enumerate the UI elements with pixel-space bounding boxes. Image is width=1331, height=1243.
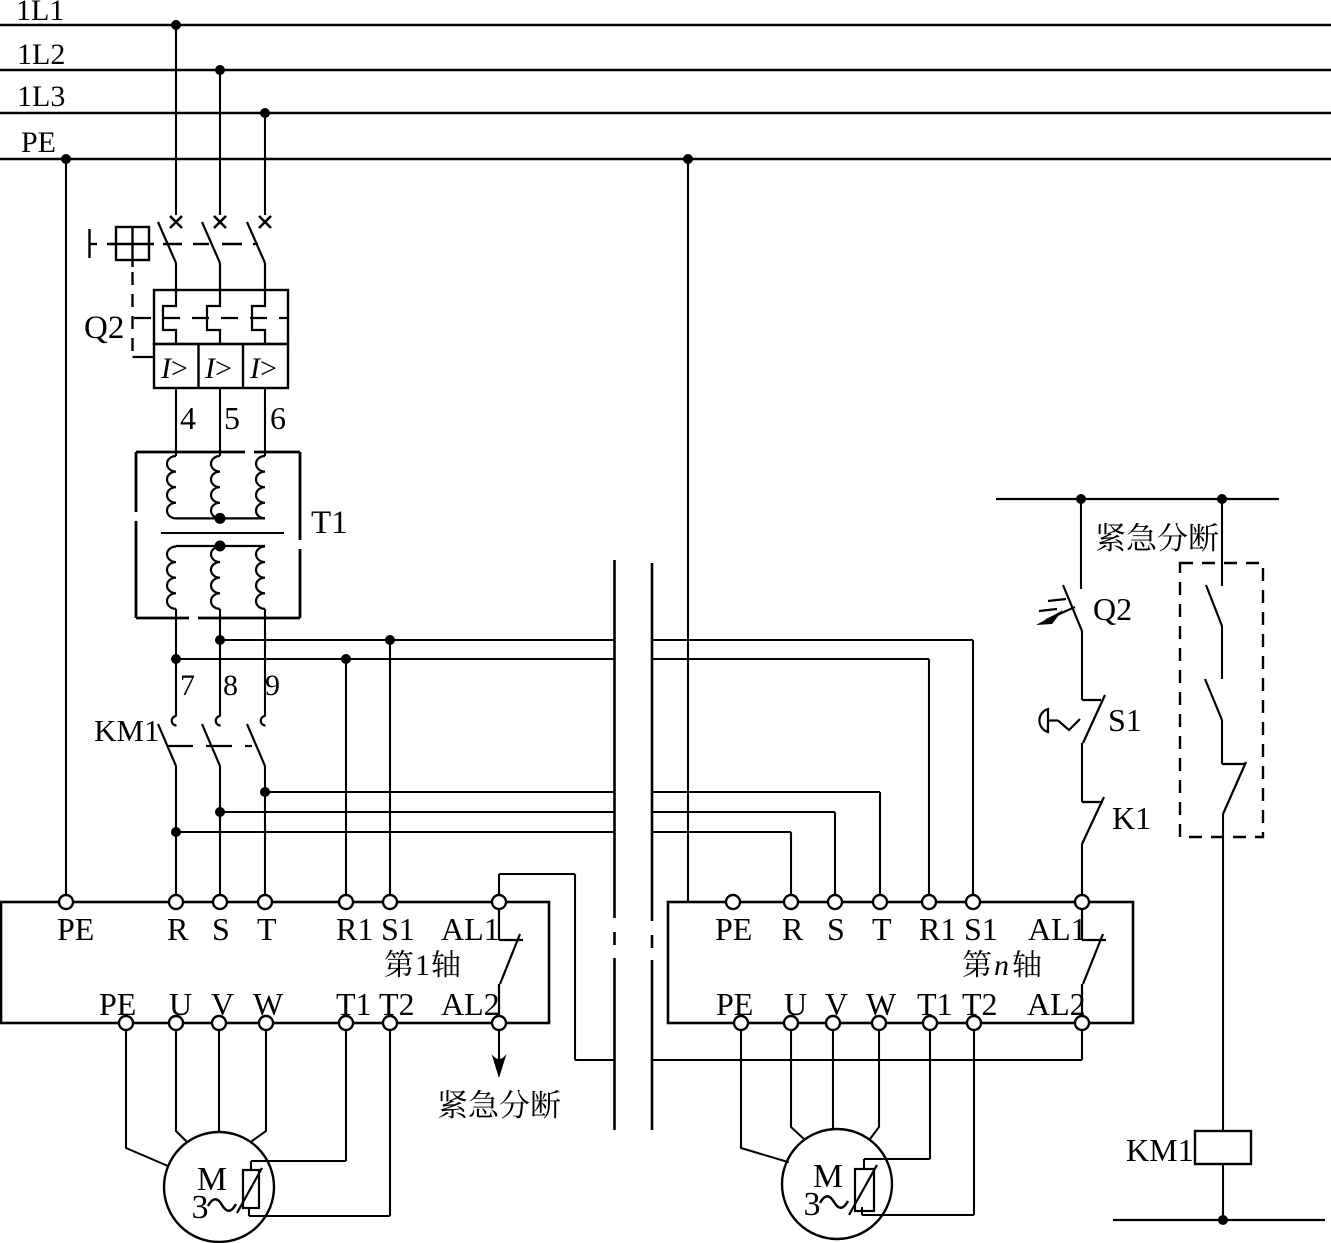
wire R-phase feed (left segment) — [176, 831, 615, 833]
drive n bottom terminal PE — [734, 1016, 748, 1030]
wire drive 1 V to motor 1 — [218, 1030, 220, 1133]
svg-text:V: V — [825, 986, 848, 1022]
svg-text:T1: T1 — [917, 986, 953, 1022]
wire pole2 down to KM1 — [219, 640, 221, 716]
wire drive n V to motor n — [832, 1030, 834, 1130]
wire KM1 coil to bottom bus — [1222, 1164, 1224, 1220]
svg-text:W: W — [866, 986, 897, 1022]
drive n terminal R1 — [922, 895, 936, 909]
node tap S-phase — [215, 635, 225, 645]
transformer T1 secondary winding 3 — [256, 547, 265, 609]
wire drive n PE to motor n — [740, 1030, 742, 1149]
drive n terminal AL1 — [1075, 895, 1089, 909]
arrowhead emergency chain — [492, 1054, 507, 1078]
svg-text:7: 7 — [180, 669, 195, 702]
emergency stop button S1 (NC) — [1082, 699, 1101, 701]
thermistor motor n — [855, 1169, 874, 1211]
node tap 1L1 — [171, 20, 181, 30]
wire R-phase feed (right segment) to drive n R — [652, 831, 791, 833]
breaker Q2 thermal elements box — [154, 290, 288, 344]
wire bus to Q2 aux — [1080, 499, 1082, 589]
svg-text:S1: S1 — [1108, 702, 1142, 738]
svg-text:1L2: 1L2 — [17, 38, 65, 71]
thermal overload element pole 1 — [163, 263, 176, 344]
node tap 1L3 — [260, 108, 270, 118]
svg-text:5: 5 — [224, 400, 240, 436]
drive 1 bottom terminal T2 — [383, 1016, 397, 1030]
transformer T1 primary star connection — [176, 517, 265, 519]
breaker Q2 pole 3 x-mark — [259, 216, 271, 228]
wire secondary 2 down — [219, 609, 221, 640]
drive 1 terminal T — [258, 895, 272, 909]
relay contact K1 (NC) — [1082, 801, 1103, 803]
drive 1 bottom terminal W — [259, 1016, 273, 1030]
wire S-phase feed (right segment) to drive n S — [652, 811, 835, 813]
drive n bottom terminal U — [784, 1016, 798, 1030]
node bottom bus — [1218, 1215, 1228, 1225]
thermistor motor 1 — [243, 1170, 259, 1208]
wire S-phase feed (left segment) — [220, 811, 615, 813]
motor Mn circle — [782, 1129, 892, 1239]
wire 1L1 to Q2 pole 1 — [175, 25, 177, 215]
svg-text:W: W — [253, 986, 284, 1022]
drive 1 terminal AL1 — [492, 895, 506, 909]
wire branch down to S1 drive 1 — [389, 640, 391, 896]
drive unit axis-n box — [668, 902, 1133, 1023]
svg-text:R1: R1 — [919, 911, 956, 947]
bus 1L1 — [0, 24, 1331, 26]
svg-text:9: 9 — [265, 669, 280, 702]
wire contact B to C — [1221, 720, 1223, 764]
node tap R-phase — [171, 654, 181, 664]
svg-text:KM1: KM1 — [1126, 1132, 1194, 1168]
breaker Q2 overcurrent I> row — [154, 344, 288, 388]
bottom control bus — [1113, 1219, 1325, 1221]
svg-text:K1: K1 — [1112, 800, 1151, 836]
node S-phase feed — [215, 807, 225, 817]
contact C (axis chain, NC) — [1222, 763, 1245, 765]
node branch S1 drive 1 — [385, 635, 395, 645]
breaker Q2 pole 1 x-mark — [170, 216, 182, 228]
transformer T1 primary winding 1 — [167, 456, 176, 518]
svg-text:S1: S1 — [381, 911, 415, 947]
breaker Q2 trip linkage dashes — [163, 243, 182, 245]
transformer T1 core line — [161, 532, 284, 534]
svg-text:PE: PE — [716, 986, 753, 1022]
svg-text:S1: S1 — [964, 911, 998, 947]
breaker Q2 pole 2 blade — [202, 222, 220, 263]
node emergency bus left — [1076, 494, 1086, 504]
contactor coil KM1 — [1195, 1131, 1251, 1164]
svg-text:Q2: Q2 — [84, 310, 124, 346]
wire K1 to drive n AL1 — [1081, 844, 1083, 896]
KM1 linkage dashed line — [168, 745, 193, 747]
breaker Q2 operator linkage dashed vertical — [131, 260, 133, 267]
bus 1L2 — [0, 69, 1331, 71]
drive n bottom terminal V — [826, 1016, 840, 1030]
svg-text:PE: PE — [715, 911, 752, 947]
svg-text:6: 6 — [270, 400, 286, 436]
drive n terminal R — [784, 895, 798, 909]
transformer T1 enclosure box (chain line) — [136, 452, 300, 618]
drive 1 terminal S — [213, 895, 227, 909]
svg-text:T1: T1 — [311, 505, 348, 541]
wire S-phase tap to S1 terminals (left segment) — [220, 639, 615, 641]
svg-text:S: S — [827, 911, 845, 947]
motor M1 circle — [164, 1132, 274, 1242]
drive n bottom terminal T1 — [923, 1016, 937, 1030]
wire PE bus to drive 1 PE terminal — [65, 159, 67, 896]
wire KM1 pole1 to R terminal — [175, 766, 177, 896]
wire Q2 to T1 pole 3 — [264, 388, 266, 456]
svg-text:V: V — [211, 986, 234, 1022]
wire drive n T1 to thermistor n — [929, 1030, 931, 1160]
svg-text:T2: T2 — [379, 986, 415, 1022]
svg-text:I>: I> — [204, 352, 232, 385]
wire drive 1 T1 to thermistor 1 — [345, 1030, 347, 1162]
drive 1 bottom terminal AL2 — [492, 1016, 506, 1030]
wire pole1 down to KM1 — [175, 659, 177, 716]
drive 1 bottom terminal U — [169, 1016, 183, 1030]
svg-text:1L1: 1L1 — [16, 0, 64, 27]
bus 1L3 — [0, 112, 1331, 114]
wire R1 tap right segment to drive n — [652, 658, 929, 660]
thermal linkage dashed line — [134, 317, 288, 319]
svg-text:8: 8 — [223, 669, 238, 702]
node T1 primary star point — [215, 513, 226, 524]
wire KM1 pole3 to T terminal — [264, 766, 266, 896]
wire contact C down to KM1 coil — [1222, 814, 1224, 1131]
svg-text:U: U — [784, 986, 807, 1022]
label emergency disconnect (bottom) — [439, 1090, 467, 1118]
other-axes contact group dashed box — [1180, 563, 1263, 837]
svg-text:PE: PE — [21, 126, 56, 159]
svg-text:T2: T2 — [962, 986, 998, 1022]
wire drive n U to motor n — [790, 1030, 792, 1128]
svg-text:3: 3 — [804, 1186, 821, 1223]
svg-text:T: T — [872, 911, 892, 947]
label axis 1 (Chinese: 1st axis) — [385, 950, 413, 977]
drive n terminal S — [828, 895, 842, 909]
wire KM1 pole2 to S terminal — [219, 766, 221, 896]
wire secondary 3 down — [264, 609, 266, 716]
wire 1L2 to Q2 pole 2 — [219, 70, 221, 215]
svg-text:4: 4 — [180, 400, 196, 436]
drive n bottom terminal AL2 — [1075, 1016, 1089, 1030]
wire bus to contact chain — [1221, 499, 1223, 586]
wire 1L3 to Q2 pole 3 — [264, 113, 266, 215]
drive 1 terminal PE — [59, 895, 73, 909]
wire drive 1 T2 to thermistor 1 — [389, 1030, 391, 1217]
svg-text:1: 1 — [415, 949, 430, 982]
transformer T1 secondary star connection — [176, 545, 265, 547]
diagram break line right — [651, 563, 654, 908]
label emergency disconnect (top) — [1097, 523, 1125, 551]
transformer T1 primary winding 3 — [256, 456, 265, 518]
wire drive 1 AL1 up and over — [498, 874, 500, 896]
S1 mushroom head — [1039, 709, 1048, 732]
svg-text:KM1: KM1 — [94, 713, 159, 748]
drive 1 bottom terminal V — [212, 1016, 226, 1030]
svg-text:AL2: AL2 — [1027, 986, 1086, 1022]
breaker Q2 pole 1 blade — [158, 222, 176, 263]
Q2 trip arrow symbol — [1039, 599, 1066, 611]
svg-text:I>: I> — [160, 352, 188, 385]
breaker Q2 manual operator crossed box — [110, 227, 154, 260]
node T1 secondary star point — [215, 541, 226, 552]
svg-text:AL2: AL2 — [441, 986, 500, 1022]
thermal overload element pole 3 — [252, 263, 265, 344]
wire drive 1 PE to motor 1 — [125, 1030, 127, 1149]
breaker Q2 pole 3 blade — [247, 222, 265, 263]
drive 1 bottom terminal T1 — [339, 1016, 353, 1030]
drive n bottom terminal T2 — [967, 1016, 981, 1030]
breaker Q2 trip linkage T-bar lead — [88, 229, 90, 258]
wire drive 1 W to motor 1 — [265, 1030, 267, 1132]
contactor KM1 main contact 3 — [261, 716, 266, 726]
drive n terminal PE — [726, 895, 740, 909]
svg-text:I>: I> — [249, 352, 277, 385]
thermal overload element pole 2 — [207, 263, 220, 344]
wire S1 to K1 — [1081, 743, 1083, 802]
wire Q2 to T1 pole 1 — [175, 388, 177, 456]
svg-text:PE: PE — [99, 986, 136, 1022]
contact A (axis chain) — [1206, 585, 1222, 626]
node tap PE right — [683, 154, 693, 164]
svg-text:R: R — [167, 911, 189, 947]
node T-phase feed — [260, 787, 270, 797]
node emergency bus right — [1217, 494, 1227, 504]
svg-text:S: S — [212, 911, 230, 947]
wire PE bus to drive n box — [687, 159, 689, 902]
wire emergency loop from break to drive n AL2 — [652, 1059, 1082, 1061]
wire S1 tap right segment to drive n — [652, 639, 973, 641]
svg-text:T1: T1 — [336, 986, 372, 1022]
transformer T1 primary winding 2 — [211, 456, 220, 518]
svg-text:R1: R1 — [336, 911, 373, 947]
node tap PE left — [61, 154, 71, 164]
drive 1 terminal S1 — [383, 895, 397, 909]
drive 1 bottom terminal PE — [119, 1016, 133, 1030]
wire drive 1 U to motor 1 — [175, 1030, 177, 1132]
wire secondary 1 down — [175, 609, 177, 659]
drive n bottom terminal W — [872, 1016, 886, 1030]
wire R-phase tap to R1 terminals (left segment) — [176, 658, 615, 660]
contactor KM1 main contact 1 — [172, 716, 177, 726]
drive 1 internal emergency contact AL1-AL2 — [498, 909, 500, 941]
wire contact A to B — [1221, 626, 1223, 679]
transformer T1 secondary winding 1 — [167, 547, 176, 609]
drive unit axis-1 box — [1, 902, 549, 1023]
label axis n (Chinese: nth axis) — [963, 950, 991, 977]
drive n terminal T — [873, 895, 887, 909]
node branch R1 drive 1 — [341, 654, 351, 664]
drive n terminal S1 — [966, 895, 980, 909]
drive 1 terminal R1 — [339, 895, 353, 909]
wire T-phase feed (left segment) — [265, 791, 615, 793]
emergency bus top right — [996, 498, 1279, 500]
wire drive n W to motor n — [878, 1030, 880, 1128]
svg-text:n: n — [994, 949, 1009, 982]
breaker Q2 auxiliary contact — [1063, 585, 1082, 631]
drive 1 terminal R — [169, 895, 183, 909]
svg-text:R: R — [782, 911, 804, 947]
wire emergency loop to break — [575, 1059, 615, 1061]
wire T-phase feed (right segment) to drive n T — [652, 791, 880, 793]
bus PE — [0, 158, 1331, 160]
diagram break line left — [613, 560, 616, 905]
contact B (axis chain) — [1205, 679, 1222, 720]
contactor KM1 main contact 2 — [216, 716, 221, 726]
svg-text:T: T — [257, 911, 277, 947]
wire drive n T2 to thermistor n — [973, 1030, 975, 1216]
svg-text:AL1: AL1 — [1028, 911, 1087, 947]
svg-text:PE: PE — [57, 911, 94, 947]
wire Q2 to T1 pole 2 — [219, 388, 221, 456]
breaker Q2 pole 2 x-mark — [214, 216, 226, 228]
node tap 1L2 — [215, 65, 225, 75]
node R-phase feed — [171, 827, 181, 837]
drive n internal emergency contact AL1-AL2 — [1081, 909, 1083, 941]
transformer T1 secondary winding 2 — [211, 547, 220, 609]
svg-text:U: U — [169, 986, 192, 1022]
wire drive 1 AL2 arrow down — [498, 1030, 500, 1070]
svg-text:1L3: 1L3 — [17, 80, 65, 113]
svg-text:AL1: AL1 — [441, 911, 500, 947]
svg-text:Q2: Q2 — [1093, 591, 1132, 627]
svg-text:3: 3 — [192, 1189, 209, 1226]
wire Q2 aux to S1 — [1081, 631, 1083, 700]
wire branch down to R1 drive 1 — [345, 659, 347, 896]
